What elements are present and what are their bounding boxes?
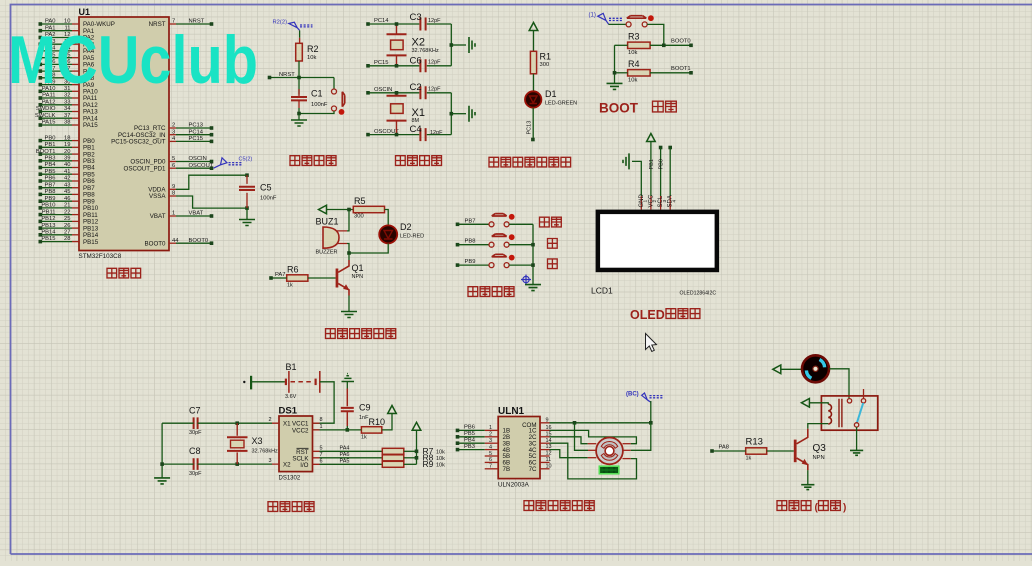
U1 pin NRST xyxy=(169,23,176,25)
svg-text:): ) xyxy=(843,503,846,514)
svg-text:(1): (1) xyxy=(589,12,596,18)
svg-text:34: 34 xyxy=(64,106,71,112)
LED D2 xyxy=(379,225,397,243)
wire COM to flag xyxy=(550,422,651,424)
svg-text:1k: 1k xyxy=(287,283,293,289)
node alarm junction xyxy=(347,251,351,255)
svg-text:LED-RED: LED-RED xyxy=(400,234,424,240)
wire crystal rail 1 xyxy=(450,24,452,66)
svg-text:SWCLK: SWCLK xyxy=(35,113,56,119)
svg-text:Q3: Q3 xyxy=(813,443,827,454)
node PA0 xyxy=(39,22,43,26)
svg-text:PB6: PB6 xyxy=(464,425,475,431)
node rail 2 xyxy=(450,112,454,116)
mouse cursor xyxy=(646,334,657,352)
wire net PA15 to U1 xyxy=(42,124,73,126)
wire U1 to NRST xyxy=(176,23,212,25)
node PA10 xyxy=(39,90,43,94)
svg-text:VCC2: VCC2 xyxy=(292,427,309,434)
wire RST row xyxy=(320,450,383,452)
node BOOT1 xyxy=(39,152,43,156)
svg-text:PB13: PB13 xyxy=(41,223,55,229)
svg-text:PB8: PB8 xyxy=(465,239,476,245)
resistor R10 xyxy=(361,427,381,433)
svg-text:C3: C3 xyxy=(410,12,422,23)
node SWDIO xyxy=(39,110,43,114)
svg-text:BOOT0: BOOT0 xyxy=(671,39,691,45)
wire power to R5 node xyxy=(327,209,354,211)
svg-text:SDA: SDA xyxy=(668,195,674,207)
svg-text:BOOT0: BOOT0 xyxy=(145,240,167,247)
svg-text:33: 33 xyxy=(64,100,70,106)
svg-text:PA4: PA4 xyxy=(340,445,350,451)
capacitor C1 xyxy=(298,78,300,95)
wire net PB13 to U1 xyxy=(42,227,73,229)
svg-text:40: 40 xyxy=(64,162,70,168)
svg-text:PB1: PB1 xyxy=(45,142,56,148)
resistor R3 xyxy=(628,42,651,48)
relay contact pole xyxy=(854,423,858,427)
wire 4C to motor left bottom xyxy=(550,450,588,458)
wire C6 to rail xyxy=(427,65,452,67)
node button-R3 xyxy=(662,44,666,48)
ground reset xyxy=(291,120,307,126)
wire net PA2 to U1 xyxy=(42,37,73,39)
svg-text:19: 19 xyxy=(64,142,70,148)
svg-text:45: 45 xyxy=(64,189,70,195)
U1 pin OSCIN_PD0 xyxy=(169,161,176,163)
wire SDA pin xyxy=(669,148,671,197)
node X3 top xyxy=(235,421,239,425)
push button reset xyxy=(333,78,335,89)
svg-text:SWDIO: SWDIO xyxy=(36,106,56,112)
wire C7 row xyxy=(162,422,194,424)
svg-text:DS1: DS1 xyxy=(279,406,298,417)
svg-text:BOOT1: BOOT1 xyxy=(36,149,56,155)
node NRST left xyxy=(268,76,272,80)
svg-text:U1: U1 xyxy=(79,7,91,17)
svg-text:R6: R6 xyxy=(287,265,299,275)
svg-text:C5: C5 xyxy=(260,183,272,193)
svg-text:3.6V: 3.6V xyxy=(285,394,297,400)
svg-text:PB6: PB6 xyxy=(45,176,56,182)
svg-text:PC15-OSC32_OUT: PC15-OSC32_OUT xyxy=(111,139,166,146)
U1 pin BOOT0 xyxy=(169,242,176,244)
node PA5 xyxy=(39,56,43,60)
wire PB8 to button xyxy=(458,244,490,246)
svg-text:PA7: PA7 xyxy=(275,272,286,278)
resistor R2 xyxy=(296,43,303,61)
node PA7 xyxy=(269,276,273,280)
wire net PA5 to U1 xyxy=(42,57,73,59)
wire C4 to rail xyxy=(427,134,452,136)
wire net PA11 to U1 xyxy=(42,97,73,99)
svg-text:I/O: I/O xyxy=(300,462,308,469)
svg-text:NPN: NPN xyxy=(352,274,364,280)
svg-text:PB15: PB15 xyxy=(41,236,55,242)
node PB3 xyxy=(456,448,460,452)
wire flag to R2 xyxy=(299,30,301,37)
svg-text:ULN1: ULN1 xyxy=(498,406,525,417)
svg-text:9: 9 xyxy=(546,417,549,423)
wire 1C to motor right top xyxy=(550,430,637,443)
node PB15 xyxy=(39,240,43,244)
wire net PB10 to U1 xyxy=(42,207,73,209)
svg-text:R10: R10 xyxy=(369,417,386,427)
wire OSCIN row xyxy=(368,92,419,94)
svg-text:D1: D1 xyxy=(545,89,557,99)
svg-text:5: 5 xyxy=(489,451,492,457)
origin marker xyxy=(521,275,531,285)
svg-text:VBAT: VBAT xyxy=(150,213,166,220)
wire R4 left rail xyxy=(614,45,616,83)
wire buzzer top xyxy=(347,210,349,231)
ULN1 pin 2C xyxy=(540,436,550,438)
resistor R8 xyxy=(382,455,404,461)
node PB0 xyxy=(668,146,672,150)
node PB6 xyxy=(39,179,43,183)
node PA7 xyxy=(39,69,43,73)
svg-text:PC14: PC14 xyxy=(374,18,389,24)
svg-text:10k: 10k xyxy=(628,78,637,84)
wire coil bottom xyxy=(808,424,828,429)
svg-text:PB4: PB4 xyxy=(45,162,57,168)
wire COM to motor left center xyxy=(575,423,589,451)
op-amp U1 body xyxy=(79,17,169,251)
capacitor C4 xyxy=(420,128,425,141)
node PB12 xyxy=(39,220,43,224)
relay contact NO xyxy=(861,399,865,403)
node PB13 xyxy=(39,226,43,230)
wire net PA8 to U1 xyxy=(42,77,73,79)
wire net PB3 to U1 xyxy=(42,160,73,162)
node PB7 xyxy=(456,223,460,227)
svg-text:B1: B1 xyxy=(286,362,297,372)
U1 pin VDDA xyxy=(169,188,176,190)
relay contact common xyxy=(847,399,851,403)
svg-text:10k: 10k xyxy=(436,456,445,462)
svg-text:X2: X2 xyxy=(412,37,425,49)
wire PB9 to button xyxy=(458,264,490,266)
svg-text:Q1: Q1 xyxy=(352,263,364,273)
wire button PB8 to rail xyxy=(509,244,533,246)
label 晶振电路 xyxy=(396,156,442,166)
wire net PB5 to U1 xyxy=(42,173,73,175)
node PC13 stub xyxy=(531,138,535,142)
wire PB4 to ULN1 xyxy=(458,442,485,444)
ground clock xyxy=(154,478,170,484)
wire battery left xyxy=(251,381,285,383)
wire Q1 emitter to ground xyxy=(348,296,350,312)
node OSCIN xyxy=(366,91,370,95)
svg-text:8: 8 xyxy=(172,191,175,197)
label 加 xyxy=(548,239,558,249)
wire U1 to BOOT0 xyxy=(176,242,212,244)
svg-text:10k: 10k xyxy=(436,450,445,456)
svg-text:12pF: 12pF xyxy=(428,87,441,93)
ULN1 pin 3 xyxy=(485,442,499,444)
chip ULN1 body xyxy=(498,417,540,479)
svg-text:12: 12 xyxy=(546,451,552,457)
node R5 left xyxy=(347,208,351,212)
wire net PA3 to U1 xyxy=(42,43,73,45)
wire relay pole to ground xyxy=(856,427,858,450)
svg-text:7B: 7B xyxy=(503,466,511,473)
node R4 rail xyxy=(613,71,617,75)
wire net PB1 to U1 xyxy=(42,146,73,148)
svg-text:7: 7 xyxy=(489,464,492,470)
wire PA8 to R13 xyxy=(712,450,746,452)
relay coil xyxy=(828,404,831,424)
resistor R7 xyxy=(382,448,404,454)
node PB3 xyxy=(39,159,43,163)
wire fan to relay xyxy=(829,369,849,399)
wire C3 to rail xyxy=(427,23,452,25)
wire VSSA to C5 xyxy=(176,196,247,208)
crystal X2 xyxy=(396,24,398,34)
svg-text:38: 38 xyxy=(64,120,70,126)
svg-text:12pF: 12pF xyxy=(428,18,441,24)
wire R10 to power xyxy=(382,414,392,430)
node PB8 xyxy=(39,193,43,197)
power arrow fan xyxy=(773,365,781,374)
wire PB6 to ULN1 xyxy=(458,429,485,431)
svg-text:X2: X2 xyxy=(283,462,291,469)
ground Q1 xyxy=(341,312,357,318)
svg-text:1: 1 xyxy=(320,424,323,430)
svg-text:OSCOUT: OSCOUT xyxy=(189,163,214,169)
svg-text:8: 8 xyxy=(320,417,323,423)
node C1 bottom xyxy=(297,112,301,116)
node VSSA-C5 xyxy=(245,206,249,210)
label 主芯片 xyxy=(107,268,141,278)
svg-text:10: 10 xyxy=(546,463,552,469)
svg-text:300: 300 xyxy=(540,62,550,68)
node PB5 xyxy=(456,435,460,439)
push button PB8 xyxy=(489,242,494,247)
node BOOT0 end xyxy=(689,44,693,48)
wire U1 to VBAT xyxy=(176,215,212,217)
ULN1 pin 5C xyxy=(540,455,550,457)
resistor R9 xyxy=(382,461,404,467)
label 复位电路 xyxy=(290,156,336,166)
svg-text:C4: C4 xyxy=(410,124,422,135)
svg-text:43: 43 xyxy=(64,182,70,188)
wire cap rail xyxy=(161,423,163,478)
wire R4 right BOOT1 xyxy=(650,72,691,74)
wire R1 to D1 xyxy=(533,74,535,92)
wire Q3 emitter ground xyxy=(807,470,809,485)
label 独立按键 xyxy=(468,287,514,297)
svg-text:PA6: PA6 xyxy=(340,452,350,458)
stepper motor M1 xyxy=(596,438,623,465)
svg-text:PB3: PB3 xyxy=(464,444,475,450)
svg-text:STM32F103C8: STM32F103C8 xyxy=(79,253,122,260)
node PA11 xyxy=(39,96,43,100)
node PB6 xyxy=(456,429,460,433)
wire net PB14 to U1 xyxy=(42,234,73,236)
wire C5 to ground xyxy=(246,208,248,219)
svg-text:LCD1: LCD1 xyxy=(591,286,613,296)
svg-text:R5: R5 xyxy=(354,196,366,206)
svg-text:3: 3 xyxy=(269,458,272,464)
svg-text:C8: C8 xyxy=(189,446,201,456)
U1 pin VBAT xyxy=(169,215,176,217)
ULN1 pin 4C xyxy=(540,449,550,451)
wire net PA7 to U1 xyxy=(42,70,73,72)
svg-text:PA12: PA12 xyxy=(42,100,56,106)
wire NRST xyxy=(270,77,335,79)
wire button rail xyxy=(532,224,534,284)
svg-text:BUZ1: BUZ1 xyxy=(316,217,339,227)
svg-text:20: 20 xyxy=(64,149,70,155)
svg-text:1k: 1k xyxy=(746,456,752,462)
wire VDDA to C5 xyxy=(176,175,247,189)
node VDDA-C5 xyxy=(245,173,249,177)
node SWCLK xyxy=(39,116,43,120)
svg-text:BOOT: BOOT xyxy=(599,101,639,116)
svg-text:PB14: PB14 xyxy=(41,230,56,236)
power flag C5(2) near OSCOUT xyxy=(214,158,228,168)
crystal X3 xyxy=(236,423,238,436)
node PC15 xyxy=(366,64,370,68)
resistor R5 xyxy=(353,206,384,212)
svg-text:OLED: OLED xyxy=(630,308,665,322)
ULN1 pin COM xyxy=(540,422,550,424)
U1 pin PC15-OSC32_OUT xyxy=(169,140,176,142)
wire 3C to motor right bottom xyxy=(550,443,637,479)
U1 pin PC13_RTC xyxy=(169,127,176,129)
capacitor C6 xyxy=(420,59,425,72)
ULN1 pin 7 xyxy=(485,468,499,470)
wire U1 to PC15 xyxy=(176,140,212,142)
wire net PB6 to U1 xyxy=(42,180,73,182)
wire net PA4 to U1 xyxy=(42,50,73,52)
battery B1 terminal xyxy=(243,381,245,383)
wire SCL pin xyxy=(660,148,662,197)
svg-text:PB4: PB4 xyxy=(464,438,476,444)
svg-text:39: 39 xyxy=(64,156,70,162)
node PC13 xyxy=(210,126,214,130)
svg-text:PC15: PC15 xyxy=(189,136,204,142)
svg-text:6: 6 xyxy=(489,457,492,463)
wire net PB12 to U1 xyxy=(42,220,73,222)
wire IO row xyxy=(320,463,383,465)
wire VCC pin xyxy=(650,142,652,197)
wire D1 to PC13 xyxy=(532,108,534,140)
wire GND pin xyxy=(632,161,641,196)
svg-text:R2(2): R2(2) xyxy=(273,20,288,26)
crystal X1 xyxy=(396,93,398,96)
wire net PB4 to U1 xyxy=(42,167,73,169)
relay blade xyxy=(857,403,863,423)
svg-text:PA5: PA5 xyxy=(340,458,350,464)
svg-text:32.768KHz: 32.768KHz xyxy=(412,48,439,54)
wire net SWDIO to U1 xyxy=(42,111,73,113)
wire net PB9 to U1 xyxy=(42,200,73,202)
wire R13 to Q3 xyxy=(767,450,794,452)
svg-text:OSCIN: OSCIN xyxy=(374,87,392,93)
svg-text:32.768kHz: 32.768kHz xyxy=(252,449,279,455)
node NRST xyxy=(210,22,214,26)
node cap rail xyxy=(160,462,164,466)
svg-text:42: 42 xyxy=(64,176,70,182)
wire R2 to NRST node xyxy=(298,61,300,78)
ground crystal 1 xyxy=(469,37,475,53)
svg-text:R9: R9 xyxy=(423,459,434,469)
svg-text:PB11: PB11 xyxy=(42,209,56,215)
wire crystal rail 2 xyxy=(450,93,452,135)
wire fan left xyxy=(781,368,802,370)
ULN1 pin 1C xyxy=(540,429,550,431)
svg-text:46: 46 xyxy=(64,196,70,202)
node PA8 xyxy=(710,449,714,453)
svg-text:PB1: PB1 xyxy=(649,159,655,169)
node PB4 xyxy=(456,441,460,445)
node COM mid xyxy=(573,421,577,425)
ground BOOT xyxy=(607,83,623,89)
ULN1 pin 1 xyxy=(485,429,499,431)
node PB7 xyxy=(39,186,43,190)
wire button to R3 rail xyxy=(647,24,664,45)
svg-text:8M: 8M xyxy=(412,118,420,124)
svg-text:PA15: PA15 xyxy=(83,122,98,129)
wire R5 to D2 xyxy=(385,210,389,226)
capacitor C2 xyxy=(420,86,425,99)
svg-text:C7: C7 xyxy=(189,406,201,416)
wire C9 top xyxy=(346,382,348,389)
wire D2 to junction xyxy=(349,243,388,253)
svg-text:18: 18 xyxy=(64,135,70,141)
svg-text:C1: C1 xyxy=(311,89,323,99)
wire to ground 2 xyxy=(451,113,466,115)
wire net PA12 to U1 xyxy=(42,104,73,106)
node BOOT0 xyxy=(210,241,214,245)
node rail 1 xyxy=(450,43,454,47)
node PB1 xyxy=(39,146,43,150)
svg-text:GND: GND xyxy=(639,194,645,208)
wire battery to VCC1 xyxy=(313,382,335,423)
label 程序运行指示灯 xyxy=(489,157,571,167)
push button BOOT xyxy=(626,22,631,27)
node PB5 xyxy=(39,172,43,176)
wire COM to motor right center xyxy=(631,423,651,451)
ULN1 pin 2 xyxy=(485,436,499,438)
svg-text:PB9: PB9 xyxy=(465,259,476,265)
resistor R6 xyxy=(287,275,308,281)
wire C1 to bottom xyxy=(298,108,300,114)
svg-text:PB9: PB9 xyxy=(45,196,56,202)
svg-text:SCL: SCL xyxy=(658,195,664,207)
svg-text:12pF: 12pF xyxy=(430,130,443,136)
svg-text:12pF: 12pF xyxy=(428,60,441,66)
U1 pin VSSA xyxy=(169,195,176,197)
node pullup R8 xyxy=(415,456,419,460)
wire net PB15 to U1 xyxy=(42,241,73,243)
ground OLED xyxy=(623,153,629,169)
svg-text:PB5: PB5 xyxy=(464,431,475,437)
wire R3 right BOOT0 xyxy=(650,44,691,46)
svg-text:2: 2 xyxy=(489,432,492,438)
node X1 bottom xyxy=(395,133,399,137)
svg-text:C6: C6 xyxy=(410,56,422,67)
node PB11 xyxy=(39,213,43,217)
push button PB9 xyxy=(489,263,494,268)
svg-text:1: 1 xyxy=(489,425,492,431)
node PB8 xyxy=(456,243,460,247)
transistor Q1 xyxy=(348,253,350,260)
ULN1 pin 3C xyxy=(540,442,550,444)
